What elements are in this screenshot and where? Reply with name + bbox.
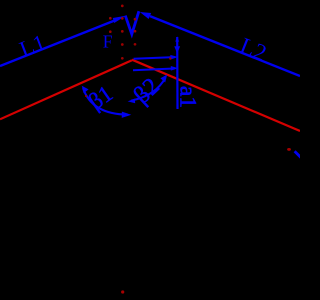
node V mirror notch [125, 11, 139, 34]
wire horizontal reference upper with arrow [134, 55, 179, 60]
wire L1 incident ray shaft [0, 21, 114, 66]
node stray red dot lower axis [121, 290, 124, 293]
wire blue corner segment [295, 151, 301, 157]
node stray red dot near arrow [169, 57, 171, 59]
wire L1 arrowhead [113, 16, 126, 23]
node angle arc beta2 [131, 78, 166, 101]
wire red reflected ray right [132, 60, 300, 131]
node angle arc beta1 [83, 88, 128, 115]
node dotted axis center [121, 5, 124, 60]
node stray red dot right [287, 148, 291, 151]
wire vertical reference line a1 [174, 36, 180, 109]
wire red reflected ray left [0, 60, 132, 119]
wire horizontal reference lower with arrow [133, 66, 178, 71]
node dotted normal right [134, 18, 137, 46]
svg-text:F: F [103, 31, 113, 51]
node stray red speck left [85, 95, 87, 97]
svg-text:a1: a1 [175, 86, 201, 108]
wire L2 incident ray shaft [150, 16, 300, 76]
node dotted normal left [109, 17, 112, 33]
wire L2 arrowhead [140, 12, 151, 19]
